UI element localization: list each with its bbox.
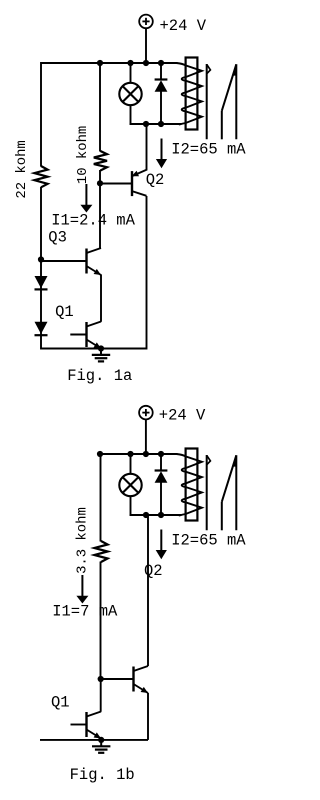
current arrow I1 (Fig 1b) xyxy=(76,575,88,604)
label I2=65 mA (Fig 1a) xyxy=(171,140,246,158)
relay contacts (Fig 1a) xyxy=(207,64,237,139)
node diode junction bottom (Fig 1b) xyxy=(158,512,164,518)
svg-text:Q3: Q3 xyxy=(48,229,67,247)
svg-text:Q1: Q1 xyxy=(55,303,74,321)
node Q1 emitter/ground junction (Fig 1b) xyxy=(98,737,104,743)
label Q3 xyxy=(48,229,67,247)
relay contacts (Fig 1b) xyxy=(207,455,237,530)
relay coil K1 (Fig 1a) xyxy=(177,58,202,130)
diode D4 flyback (Fig 1b) xyxy=(155,471,168,483)
ground symbol (Fig 1a) xyxy=(92,349,110,362)
svg-text:Q1: Q1 xyxy=(51,694,70,712)
wire supply drop (Fig 1b) xyxy=(145,419,147,454)
diode D3 flyback (Fig 1a) xyxy=(155,80,168,92)
wire left branch upper xyxy=(40,62,42,167)
svg-text:Q2: Q2 xyxy=(146,171,165,189)
power +24V supply symbol (Fig 1b) xyxy=(139,406,153,420)
node top rail left corner xyxy=(97,451,103,457)
current arrow I1 (Fig 1a) xyxy=(80,184,92,213)
node diode junction top (Fig 1b) xyxy=(158,451,164,457)
wire left line to resistor xyxy=(100,454,102,542)
label Q1 (Fig 1a) xyxy=(55,303,74,321)
wire Q2 emitter down (Fig 1b) xyxy=(147,693,149,740)
diode D1 xyxy=(35,276,48,289)
svg-text:Fig. 1a: Fig. 1a xyxy=(67,367,132,385)
wire Q3 emitter to Q1 collector xyxy=(100,275,102,322)
label +24 V (Fig 1a) xyxy=(160,17,207,35)
caption Fig. 1b xyxy=(70,766,135,784)
wire lamp bottom lead xyxy=(130,106,132,125)
node Q2 emitter junction xyxy=(143,121,149,127)
svg-text:Fig. 1b: Fig. 1b xyxy=(70,766,135,784)
wire lamp bottom lead (Fig 1b) xyxy=(130,497,132,516)
node supply junction xyxy=(143,60,149,66)
label 3.3 kohm xyxy=(74,507,90,574)
svg-text:+24 V: +24 V xyxy=(160,17,207,35)
label 22 kohm xyxy=(14,140,30,198)
lamp L2 (Fig 1b) xyxy=(119,474,141,496)
transistor Q1 (Fig 1b) xyxy=(71,712,102,739)
wire diode top lead (Fig 1b) xyxy=(160,454,162,471)
wire supply drop xyxy=(145,28,147,63)
node N1 (R2/Q3.c/Q2.b) xyxy=(97,180,103,186)
svg-text:3.3 kohm: 3.3 kohm xyxy=(74,507,90,574)
node Q1 emitter/ground junction xyxy=(98,345,104,351)
label 10 kohm xyxy=(75,126,91,184)
transistor Q1 (Fig 1a) xyxy=(70,322,101,349)
node diode junction bottom xyxy=(158,121,164,127)
label +24 V (Fig 1b) xyxy=(159,406,206,424)
wire bottom rail lamp-diode-relay (Fig 1b) xyxy=(130,514,181,516)
node lamp junction top xyxy=(127,60,133,66)
label Q2 (Fig 1b) xyxy=(144,562,163,580)
node lamp junction top (Fig 1b) xyxy=(127,451,133,457)
node supply junction (Fig 1b) xyxy=(143,451,149,457)
wire 10k bottom to node xyxy=(99,170,101,183)
current arrow I2 (Fig 1a) xyxy=(156,139,167,169)
wire resistor to Q2 base node xyxy=(100,562,102,680)
wire bottom rail lamp-diode-relay (Fig 1a) xyxy=(130,123,181,125)
wire Q2 collector down xyxy=(146,196,148,350)
wire N1 to Q3 collector xyxy=(99,183,101,248)
transistor Q2 (PNP, Fig 1a) xyxy=(132,170,147,196)
wire Q3 collector bend xyxy=(100,247,101,249)
wire bottom ground rail (Fig 1a) xyxy=(41,348,147,350)
svg-text:+24 V: +24 V xyxy=(159,406,206,424)
lamp L1 (Fig 1a) xyxy=(119,83,141,105)
resistor R3 3.3 kohm xyxy=(94,541,107,562)
label Q1 (Fig 1b) xyxy=(51,694,70,712)
wire top rail (Fig 1a) xyxy=(41,62,178,64)
relay coil K2 (Fig 1b) xyxy=(177,449,202,521)
wire top rail (Fig 1b) xyxy=(100,453,178,455)
wire ground rail (Fig 1b) xyxy=(40,739,148,741)
wire lamp top lead xyxy=(130,63,132,83)
resistor R2 10 kohm xyxy=(94,151,107,171)
wire Q2 emitter up xyxy=(146,124,148,171)
wire Q2 base xyxy=(100,183,132,185)
caption Fig. 1a xyxy=(67,367,132,385)
transistor Q2 (Fig 1b) xyxy=(101,666,149,693)
wire N2 to Q1 collector xyxy=(100,679,102,712)
diode D2 xyxy=(35,322,48,335)
wire lamp top lead (Fig 1b) xyxy=(130,454,132,474)
svg-text:I1=7 mA: I1=7 mA xyxy=(52,602,118,620)
transistor Q3 xyxy=(41,248,102,275)
node diode junction top xyxy=(158,60,164,66)
node N2 (R3/Q1.c/Q2.b) xyxy=(98,676,104,682)
node top rail / R2 junction xyxy=(97,60,103,66)
power +24V supply symbol (Fig 1a) xyxy=(139,15,153,29)
node Q3 base junction xyxy=(38,256,44,262)
node Q2 collector junction (Fig 1b) xyxy=(143,512,149,518)
svg-text:10 kohm: 10 kohm xyxy=(75,126,91,184)
svg-text:Q2: Q2 xyxy=(144,562,163,580)
svg-text:I1=2.4 mA: I1=2.4 mA xyxy=(51,212,135,230)
svg-text:I2=65 mA: I2=65 mA xyxy=(171,140,246,158)
wire Q2 collector up (Fig 1b) xyxy=(147,515,149,666)
current arrow I2 (Fig 1b) xyxy=(156,530,167,560)
label I1=2.4 mA xyxy=(51,212,135,230)
wire left branch lower xyxy=(40,187,42,350)
ground symbol (Fig 1b) xyxy=(92,740,110,753)
wire diode top lead xyxy=(160,63,162,80)
wire diode bottom lead (Fig 1b) xyxy=(160,483,162,516)
svg-text:I2=65 mA: I2=65 mA xyxy=(171,531,246,549)
resistor R1 22 kohm xyxy=(34,166,47,187)
wire Q2 base (Fig 1b) xyxy=(101,678,134,680)
wire 10k top xyxy=(99,63,101,152)
label I1=7 mA xyxy=(52,602,118,620)
label I2=65 mA (Fig 1b) xyxy=(171,531,246,549)
svg-text:22 kohm: 22 kohm xyxy=(14,140,30,198)
label Q2 (Fig 1a) xyxy=(146,171,165,189)
wire diode bottom lead xyxy=(160,92,162,125)
